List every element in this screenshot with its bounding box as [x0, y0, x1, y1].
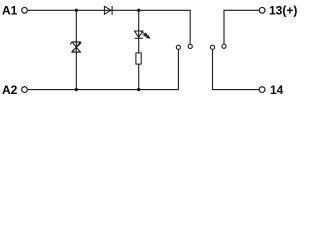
terminal A1 — [22, 7, 28, 13]
node junction top-middle (LED tap) — [137, 9, 140, 12]
suppressor diode branch wire — [75, 10, 77, 89]
suppressor diode (bidirectional TVS) symbol — [70, 42, 81, 52]
svg-text:13(+): 13(+) — [269, 4, 297, 18]
contact 2 upper circle — [222, 44, 226, 48]
LED arrows — [141, 32, 150, 38]
terminal 14 — [259, 87, 265, 93]
LED branch wire — [138, 10, 140, 53]
wire contact 2 down to 14 terminal — [213, 50, 260, 90]
node junction top-left (suppressor tap) — [75, 9, 78, 12]
contact 1 upper circle — [188, 44, 192, 48]
terminal 13(+) — [259, 7, 265, 13]
contact 2 lower circle — [210, 45, 214, 49]
diode D1 (series diode, pointing right) — [104, 6, 112, 15]
terminal A2 — [22, 87, 28, 93]
svg-text:14: 14 — [270, 83, 284, 97]
wire contact 1 down to bottom rail — [28, 50, 179, 90]
wire top: A1 to corner, down to contact 1 — [28, 10, 190, 43]
node junction bottom-middle (resistor tap) — [137, 88, 140, 91]
contact 1 lower circle — [176, 45, 180, 49]
LED D2 (indicator, pointing down) — [135, 31, 143, 38]
resistor lower lead — [138, 64, 140, 90]
resistor R1 — [136, 53, 141, 64]
wire 13(+) : from terminal left then down to contact 2 — [224, 10, 259, 43]
svg-text:A2: A2 — [2, 83, 18, 97]
node junction bottom-left (suppressor tap) — [75, 88, 78, 91]
svg-text:A1: A1 — [2, 4, 18, 18]
